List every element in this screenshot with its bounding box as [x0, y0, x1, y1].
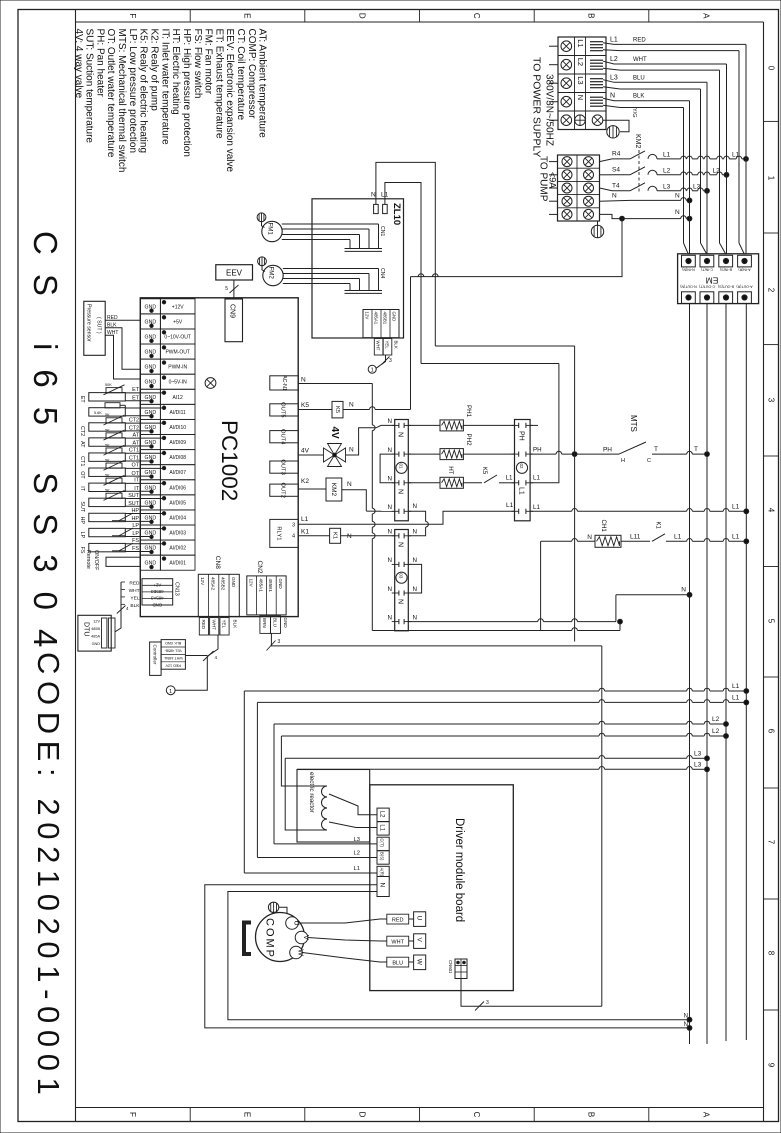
svg-text:RLY1: RLY1: [276, 526, 282, 540]
terminal block X1 power supply: [558, 37, 606, 130]
svg-text:K5: Realy of electric heating: K5: Realy of electric heating: [138, 29, 149, 154]
pump neutral wire N row4: [600, 199, 631, 202]
svg-text:OT: OT: [132, 471, 140, 477]
neutral loop inner: [228, 892, 690, 1020]
svg-text:AI/DI01: AI/DI01: [169, 561, 186, 567]
svg-text:485B: 485B: [91, 627, 100, 631]
svg-text:PH2: PH2: [465, 434, 472, 447]
svg-text:C: C: [647, 458, 651, 464]
svg-text:3: 3: [292, 523, 295, 529]
svg-text:OT: OT: [79, 471, 85, 479]
svg-text:L1: L1: [354, 866, 360, 872]
wire L3 tap 2: [297, 768, 599, 770]
svg-text:485A3: 485A3: [150, 596, 163, 601]
svg-text:CT1: CT1: [79, 456, 85, 466]
PC1002 terminal rows GND cells and IO cells: [140, 299, 160, 314]
svg-text:N: N: [347, 533, 352, 540]
fuse L1 on ZL10: [383, 204, 388, 213]
svg-text:YEL 485B-: YEL 485B-: [164, 649, 182, 653]
svg-text:RED: RED: [129, 581, 140, 587]
svg-text:BLK: BLK: [233, 620, 238, 630]
svg-text:R4: R4: [612, 150, 621, 157]
terminal strip N1 (upper): [395, 420, 409, 521]
svg-text:COMP: COMP: [264, 918, 276, 959]
output OUT4: [270, 431, 298, 443]
svg-text:8: 8: [767, 951, 776, 956]
heater PH2: [408, 453, 440, 455]
power supply PE terminal: [575, 115, 586, 126]
svg-text:LP: Low pressure protection: LP: Low pressure protection: [127, 29, 138, 154]
svg-text:L3: L3: [693, 183, 701, 190]
svg-text:L1: L1: [610, 36, 618, 43]
svg-text:N: N: [371, 192, 376, 199]
KM2 linkage dashed line: [638, 150, 640, 194]
svg-text:L1: L1: [576, 39, 585, 47]
svg-text:AI/DI05: AI/DI05: [169, 500, 186, 506]
svg-text:AC-N1: AC-N1: [281, 375, 287, 391]
svg-text:2: 2: [767, 288, 776, 293]
earth symbol FM1: [257, 213, 266, 222]
svg-text:Remote: Remote: [85, 550, 91, 569]
svg-text:<9A: <9A: [548, 172, 558, 188]
svg-text:HT: Electric heating: HT: Electric heating: [170, 29, 181, 115]
svg-text:U: U: [416, 916, 423, 921]
svg-text:1: 1: [169, 689, 172, 695]
svg-text:H: H: [621, 458, 625, 464]
svg-text:N: N: [349, 402, 354, 409]
svg-text:GND: GND: [92, 642, 101, 646]
svg-text:CODE: 20210201-0001: CODE: 20210201-0001: [31, 652, 66, 1101]
neutral junction to EM N-phase: [687, 592, 692, 597]
svg-text:1: 1: [767, 176, 776, 181]
wire RLY1 pin3 L1 to PH strip row4: [298, 523, 425, 525]
svg-text:N: N: [379, 883, 386, 888]
contactor KM2 contacts R4 S4 T4: [600, 159, 613, 162]
svg-text:N: N: [397, 489, 404, 494]
svg-text:L3: L3: [663, 183, 671, 190]
svg-text:PH: Pan heater: PH: Pan heater: [94, 29, 105, 98]
svg-text:4: 4: [215, 655, 218, 660]
svg-text:BLK GND: BLK GND: [165, 641, 182, 645]
svg-text:L2: L2: [354, 851, 360, 857]
relay K5 coil: [298, 409, 332, 411]
svg-text:5.6K: 5.6K: [94, 411, 102, 415]
svg-text:AI/DI09: AI/DI09: [169, 440, 186, 446]
bus verticals from power feeds to EM: [745, 44, 747, 254]
svg-text:01: 01: [398, 464, 403, 469]
svg-text:L1: L1: [533, 475, 540, 482]
svg-text:485A: 485A: [91, 635, 100, 639]
svg-text:K2: Realy of pump: K2: Realy of pump: [149, 29, 160, 112]
earth symbol below pump block: [591, 225, 603, 237]
svg-text:5K: 5K: [105, 489, 110, 493]
svg-text:0: 0: [767, 66, 776, 71]
wire L1 tap 2 to driver B-phase: [257, 701, 599, 703]
svg-text:AI/DI02: AI/DI02: [169, 546, 186, 552]
svg-text:B: B: [587, 13, 596, 18]
svg-text:F: F: [128, 1112, 137, 1117]
jumper strip1 row4 to strip2 row1: [408, 511, 425, 521]
svg-text:FM1: FM1: [267, 223, 274, 236]
svg-text:RED: RED: [201, 620, 206, 630]
wire CN2 3-wire bundle to CN601: [271, 633, 277, 646]
wire L1 tap 1 to driver A-phase: [244, 690, 599, 692]
svg-text:4V: 4V: [301, 448, 310, 455]
svg-text:A-IN(R): A-IN(R): [738, 268, 750, 272]
ZL10 485 connector cells: [363, 310, 399, 338]
svg-text:A-OUT(R): A-OUT(R): [736, 285, 752, 289]
terminal strip N2 (lower): [395, 530, 409, 631]
svg-text:L1: L1: [379, 824, 385, 831]
svg-text:L2: L2: [712, 716, 720, 723]
svg-text:electric reactor: electric reactor: [308, 772, 315, 813]
svg-text:RED: RED: [633, 37, 646, 43]
AC-N1 neutral vertical: [371, 384, 373, 426]
svg-text:N: N: [413, 529, 417, 536]
svg-text:L3: L3: [576, 76, 585, 84]
wire ZL10 L1 up and over to drop: [385, 183, 421, 364]
svg-text:L2: L2: [663, 167, 671, 174]
svg-text:D: D: [357, 13, 366, 19]
svg-text:L3: L3: [694, 761, 702, 768]
node 1 circle top: [368, 365, 376, 373]
wire labels RED WHT BLU: [387, 914, 409, 924]
svg-text:N: N: [388, 418, 392, 425]
wire to K5 N vertical: [410, 277, 412, 410]
connector CN1 bus: [345, 248, 383, 250]
modem DTU: [78, 615, 111, 651]
svg-text:BLU: BLU: [272, 618, 277, 627]
svg-text:HP: HP: [79, 516, 85, 524]
driver module board: [370, 785, 514, 991]
svg-text:PH1: PH1: [465, 405, 472, 418]
EM output verticals: [689, 303, 691, 1044]
svg-text:N: N: [397, 432, 404, 437]
svg-text:L1: L1: [506, 475, 513, 482]
wire corner to B(S) input: [256, 702, 258, 857]
wire corner to C(T) input: [273, 724, 275, 844]
svg-text:BRN: BRN: [262, 618, 267, 628]
CN8 wire color boxes: [199, 618, 208, 635]
svg-text:FS: FS: [79, 547, 85, 554]
svg-text:KM2: KM2: [330, 483, 337, 497]
svg-text:L1: L1: [732, 694, 740, 701]
svg-text:CH1: CH1: [600, 520, 607, 533]
heater HT with K5 contact: [408, 482, 440, 484]
wire CN13 bundle to DTU: [115, 582, 121, 632]
svg-text:GND: GND: [152, 602, 162, 607]
svg-text:BLU: BLU: [633, 75, 645, 81]
terminal strip PH (right): [515, 420, 531, 521]
wire corner to reactor bottom: [285, 758, 327, 830]
svg-text:RED 12V: RED 12V: [165, 663, 181, 667]
electronic expansion valve EEV: [216, 265, 253, 280]
node 1 circle bottom: [166, 686, 175, 695]
svg-text:LP: LP: [132, 531, 139, 537]
svg-text:S4: S4: [612, 166, 620, 173]
svg-text:12V: 12V: [249, 579, 254, 588]
svg-text:W: W: [416, 959, 423, 966]
svg-text:380V/3N~/50HZ: 380V/3N~/50HZ: [544, 74, 555, 146]
svg-text:WHT 485A-: WHT 485A-: [163, 656, 183, 660]
svg-text:CN9: CN9: [229, 304, 236, 318]
svg-text:D: D: [357, 1112, 366, 1118]
svg-text:GND: GND: [283, 618, 288, 629]
svg-text:YEL: YEL: [130, 595, 139, 601]
svg-text:OUT2: OUT2: [280, 482, 286, 497]
svg-text:4V: 4V: [329, 427, 340, 440]
svg-text:485B1: 485B1: [383, 312, 388, 325]
svg-text:AI/DI04: AI/DI04: [169, 515, 186, 521]
svg-text:N: N: [388, 557, 392, 564]
svg-text:K2: K2: [301, 478, 309, 485]
svg-text:C(T): C(T): [380, 838, 385, 847]
svg-text:5K: 5K: [105, 458, 110, 462]
svg-text:N: N: [388, 586, 392, 593]
output OUT2: [270, 484, 298, 496]
svg-text:L1: L1: [301, 516, 309, 523]
svg-text:CN1: CN1: [379, 226, 385, 236]
svg-text:EEV: EEV: [226, 268, 243, 277]
svg-text:K1: K1: [655, 522, 661, 530]
svg-text:L2: L2: [712, 728, 720, 735]
wire corner L1 to A(R) input: [243, 691, 245, 873]
svg-text:IT: IT: [134, 486, 139, 492]
neutral line 1: [372, 630, 572, 632]
wire AC-N1 neutral to vertical drop: [298, 383, 372, 385]
earth symbol FM2: [258, 257, 267, 266]
svg-text:HT: HT: [447, 466, 454, 474]
svg-text:TO PUMP: TO PUMP: [538, 156, 549, 202]
svg-text:4: 4: [126, 606, 129, 611]
svg-text:5K: 5K: [105, 474, 110, 478]
svg-text:HP: High pressure protection: HP: High pressure protection: [181, 29, 192, 157]
svg-text:CS i65 SS304: CS i65 SS304: [27, 231, 64, 666]
wire corner to reactor top: [281, 736, 327, 786]
wire CN601 3-wire bundle to CN2: [461, 979, 602, 1007]
svg-text:N: N: [675, 193, 680, 200]
svg-text:485A2: 485A2: [210, 577, 215, 591]
fan controller ZL10: [312, 199, 404, 338]
svg-text:485B1: 485B1: [268, 579, 273, 593]
svg-text:T: T: [654, 446, 658, 453]
svg-text:485B2: 485B2: [221, 577, 226, 591]
pump neutral wire N row5: [600, 214, 623, 218]
svg-text:7: 7: [767, 840, 776, 845]
svg-text:03: 03: [398, 573, 403, 578]
svg-text:Y/G: Y/G: [631, 108, 637, 117]
svg-text:L1: L1: [732, 151, 740, 158]
svg-text:C-IN(T): C-IN(T): [701, 268, 713, 272]
svg-text:V: V: [302, 935, 309, 940]
wire V to driver: [308, 938, 414, 942]
wire ZL10 L1 drop to PH row3: [421, 363, 559, 365]
connector CN13 cells: [142, 579, 173, 605]
svg-text:K5: K5: [301, 402, 309, 409]
svg-text:PC1002: PC1002: [217, 420, 242, 501]
svg-text:K1: K1: [301, 529, 309, 536]
svg-text:L1: L1: [506, 502, 514, 509]
svg-text:AI/DI06: AI/DI06: [169, 485, 186, 491]
heater PH1: [408, 424, 440, 426]
svg-text:CT1: CT1: [129, 456, 139, 462]
svg-text:L11: L11: [630, 533, 641, 540]
svg-text:CN8: CN8: [214, 556, 221, 569]
svg-text:YEL: YEL: [385, 341, 390, 350]
wire L3 tap 1: [285, 757, 599, 759]
svg-text:TO POWER SUPPLY: TO POWER SUPPLY: [531, 57, 543, 158]
sensor FS input row 17: [89, 543, 126, 551]
contactor coil KM2: [298, 488, 326, 490]
relay output RLY1: [270, 519, 298, 547]
svg-text:WHT: WHT: [129, 588, 140, 594]
svg-text:CN13: CN13: [174, 582, 180, 596]
wire L2 tap 2: [281, 735, 599, 737]
svg-text:N: N: [388, 476, 392, 483]
svg-text:3: 3: [389, 358, 392, 364]
connector CN9: [225, 299, 243, 342]
svg-text:ET: ET: [132, 387, 140, 393]
svg-text:T: T: [694, 446, 698, 453]
wire L2 tap 1: [274, 723, 599, 725]
svg-text:L1: L1: [533, 504, 540, 511]
svg-text:IT: IT: [134, 478, 139, 484]
svg-text:U: U: [293, 920, 300, 925]
svg-text:N-OUT(N): N-OUT(N): [680, 285, 696, 289]
svg-text:N: N: [612, 193, 617, 200]
sensor IT input row 13: [89, 483, 126, 491]
svg-text:CN601: CN601: [448, 960, 453, 974]
EMI filter EM: [678, 254, 759, 304]
wire ZL10 485 bundle to node 1: [376, 355, 385, 368]
svg-text:AI/DI11: AI/DI11: [170, 410, 187, 416]
svg-text:5K: 5K: [105, 413, 110, 417]
svg-text:RED: RED: [392, 918, 404, 924]
svg-text:FS: FS: [132, 538, 139, 544]
svg-text:GND: GND: [231, 577, 236, 588]
svg-text:WHT: WHT: [391, 940, 404, 946]
sensor ET input row 7: [89, 393, 126, 401]
svg-text:AI/DI03: AI/DI03: [169, 531, 186, 537]
svg-text:COMP: Compressor: COMP: Compressor: [246, 29, 257, 120]
svg-text:3: 3: [278, 639, 281, 645]
svg-text:L2: L2: [610, 56, 618, 63]
fan motor FM1: [262, 221, 282, 241]
svg-text:4: 4: [767, 508, 776, 513]
svg-text:AI/DI10: AI/DI10: [169, 425, 186, 431]
svg-text:N: N: [587, 534, 592, 541]
svg-text:+5V: +5V: [173, 319, 183, 325]
svg-text:OT: Outlet water temperature: OT: Outlet water temperature: [105, 29, 116, 158]
reactor leads to L2 L1 inputs: [329, 794, 377, 815]
sensor CT1 input row 11: [89, 453, 126, 461]
svg-text:N: N: [388, 614, 392, 621]
svg-text:DTU: DTU: [83, 622, 90, 636]
svg-text:N: N: [413, 557, 417, 564]
svg-text:CT2: CT2: [129, 426, 139, 432]
svg-text:L1: L1: [518, 487, 525, 495]
svg-text:BLU: BLU: [392, 961, 403, 967]
svg-text:ET: ET: [79, 396, 85, 404]
earth symbol compressor: [268, 902, 278, 912]
svg-text:4: 4: [292, 534, 295, 540]
svg-text:N: N: [388, 504, 392, 511]
wire ZL10 N drop to PH junction: [435, 345, 574, 347]
svg-text:MTS: Mechanical thermal switc: MTS: Mechanical thermal switch: [116, 29, 127, 173]
svg-text:N: N: [301, 377, 306, 384]
svg-text:02: 02: [519, 464, 524, 469]
svg-text:OUT5: OUT5: [280, 402, 286, 417]
svg-text:LP: LP: [79, 532, 85, 539]
svg-text:4V: 4 way valve: 4V: 4 way valve: [73, 29, 84, 99]
electric reactor: [297, 770, 370, 843]
svg-text:12V: 12V: [200, 577, 205, 586]
svg-text:ON/OFF: ON/OFF: [93, 550, 99, 571]
wire EEV to CN9 with 5-wire slash: [233, 280, 235, 298]
svg-text:12V: 12V: [93, 620, 100, 624]
neutral loop outer: [205, 885, 690, 1028]
svg-text:PH: PH: [533, 446, 542, 453]
svg-text:CT2: CT2: [129, 417, 139, 423]
svg-text:SUT: SUT: [79, 501, 85, 512]
svg-text:PH: PH: [518, 431, 525, 441]
svg-text:BLK: BLK: [633, 94, 644, 100]
mounting bracket: [244, 923, 251, 955]
strip2 rows2-3 jumper: [408, 564, 421, 593]
svg-text:5: 5: [225, 286, 228, 292]
sensor AT input row 10: [89, 438, 126, 446]
svg-text:AT: AT: [133, 432, 140, 438]
vertical 3-wire run: [601, 646, 603, 1006]
svg-text:L3: L3: [610, 74, 618, 81]
svg-text:6: 6: [767, 729, 776, 734]
connector CN4 bus: [345, 290, 383, 292]
svg-text:EEV: Electronic expansion val: EEV: Electronic expansion valve: [224, 29, 235, 173]
svg-text:+12V: +12V: [172, 304, 184, 310]
svg-text:HP: HP: [132, 516, 140, 522]
svg-text:ET: ET: [132, 395, 140, 401]
svg-text:PWM-OUT: PWM-OUT: [165, 350, 189, 356]
svg-text:N-IN(N): N-IN(N): [682, 268, 694, 272]
output OUT3: [270, 461, 298, 473]
svg-text:ZL10: ZL10: [391, 203, 402, 225]
output AC-N1: [270, 376, 298, 390]
svg-text:N: N: [347, 481, 352, 488]
sensor CT2 input row 9: [89, 423, 126, 431]
svg-text:HP: HP: [132, 508, 140, 514]
svg-text:ET: Exhaust temperature: ET: Exhaust temperature: [213, 29, 224, 139]
svg-text:( SUT ): ( SUT ): [96, 317, 102, 334]
svg-text:1: 1: [371, 368, 374, 374]
fan motor FM2: [263, 265, 283, 285]
svg-text:5K: 5K: [105, 443, 110, 447]
svg-text:0~5V-IN: 0~5V-IN: [169, 380, 188, 386]
sensor HP input row 15: [89, 513, 126, 521]
svg-text:A: A: [701, 1112, 710, 1118]
svg-text:N: N: [684, 1022, 688, 1028]
svg-text:L2: L2: [713, 167, 721, 174]
svg-text:CT2: CT2: [79, 426, 85, 436]
svg-text:Driver module board: Driver module board: [453, 818, 465, 922]
FM2 wires to CN4: [283, 268, 379, 270]
compressor COMP: [256, 913, 305, 962]
svg-text:AT: AT: [79, 441, 85, 448]
svg-text:N: N: [413, 586, 417, 593]
wire W to driver: [302, 953, 413, 963]
svg-text:MTS: MTS: [629, 415, 638, 432]
svg-text:N: N: [388, 529, 392, 536]
driver terminals U V W: [414, 912, 426, 927]
